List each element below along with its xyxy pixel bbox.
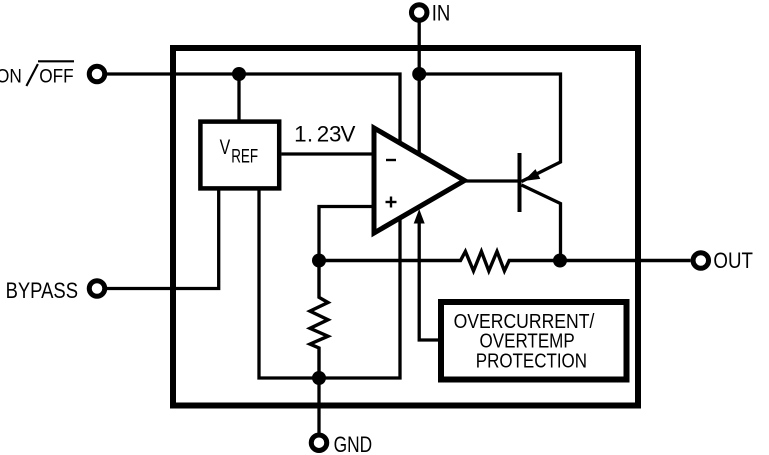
- wire ground rail: [259, 189, 400, 378]
- node junction collector-OUT: [553, 254, 567, 268]
- node junction ON/OFF to VREF: [232, 67, 246, 81]
- arrow into op-amp: [414, 209, 425, 224]
- pin ON/OFF terminal: [89, 66, 105, 82]
- op-amp plus symbol: [386, 201, 397, 203]
- wire non-inverting input from feedback tap: [319, 207, 374, 261]
- pin OUT terminal: [693, 253, 709, 269]
- slash of ON/OFF: [26, 64, 38, 86]
- wire feedback node to OUT with resistor R1 zigzag: [319, 251, 691, 271]
- wire ON/OFF horizontal into enable drop: [104, 74, 400, 146]
- svg-text:V: V: [220, 136, 231, 159]
- node junction IN rail: [412, 67, 426, 81]
- svg-text:OFF: OFF: [39, 65, 73, 87]
- block VREF: [200, 122, 279, 189]
- svg-text:V: V: [341, 121, 356, 146]
- overline over OFF: [38, 60, 74, 62]
- svg-text:1: 1: [294, 121, 306, 146]
- transistor Q1 emitter arrow: [524, 169, 541, 181]
- wire IN rail to emitter: [419, 74, 560, 182]
- transistor Q1 collector wire: [522, 185, 561, 261]
- wire base from op-amp output: [465, 179, 520, 182]
- svg-text:IN: IN: [432, 0, 451, 25]
- svg-text:.: .: [307, 121, 313, 146]
- svg-text:OVERTEMP: OVERTEMP: [480, 331, 575, 353]
- svg-text:PROTECTION: PROTECTION: [476, 350, 587, 372]
- IC boundary box: [173, 48, 638, 406]
- transistor Q1 base bar: [518, 153, 522, 212]
- wire GND stem: [317, 378, 320, 433]
- svg-text:2: 2: [317, 121, 329, 146]
- wire VREF top pin: [237, 74, 240, 122]
- svg-text:ON: ON: [0, 65, 22, 87]
- resistor R2 vertical with wires: [310, 261, 328, 379]
- svg-text:GND: GND: [334, 432, 373, 455]
- svg-text:OVERCURRENT/: OVERCURRENT/: [454, 311, 595, 333]
- wire protection signal to op-amp: [419, 221, 441, 340]
- pin GND terminal: [311, 435, 327, 451]
- node junction ground: [312, 371, 326, 385]
- svg-text:BYPASS: BYPASS: [6, 278, 78, 303]
- wire BYPASS to VREF pin: [105, 189, 219, 289]
- wire IN vertical: [418, 20, 421, 157]
- pin IN terminal: [411, 5, 427, 21]
- svg-text:REF: REF: [231, 147, 258, 168]
- op-amp minus symbol: [386, 159, 396, 161]
- op-amp U1 error amplifier: [374, 128, 465, 233]
- wire VREF output / inverting input, 1.23V: [282, 152, 375, 155]
- node junction feedback tap: [312, 254, 326, 268]
- block overcurrent/overtemp protection: [441, 302, 627, 380]
- pin BYPASS terminal: [89, 281, 105, 297]
- svg-text:OUT: OUT: [713, 248, 753, 273]
